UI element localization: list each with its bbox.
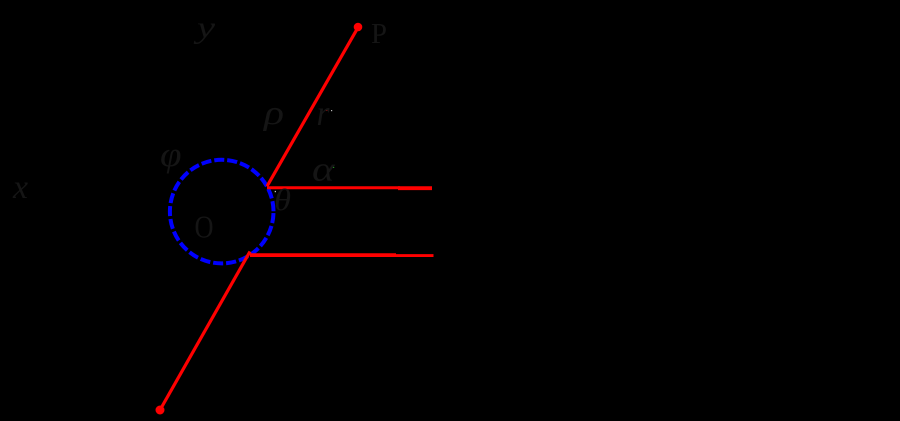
point P dot bbox=[354, 23, 363, 32]
svg-text:α: α bbox=[312, 150, 335, 189]
svg-text:φ: φ bbox=[160, 135, 182, 174]
svg-text:θ: θ bbox=[274, 182, 291, 217]
lower horizontal red line left part (thicker) bbox=[250, 253, 396, 257]
lower diagonal red line to bottom point bbox=[160, 252, 250, 411]
svg-text:y: y bbox=[193, 10, 215, 45]
bottom point dot bbox=[156, 406, 165, 415]
circle O (dashed blue) bbox=[170, 160, 274, 264]
upper horizontal red line right part (thicker) bbox=[398, 186, 432, 190]
text AA speckles bbox=[275, 109, 335, 192]
svg-text:O: O bbox=[195, 209, 214, 245]
svg-text:ρ: ρ bbox=[263, 95, 284, 132]
upper horizontal red line bbox=[267, 186, 400, 189]
svg-text:P: P bbox=[371, 19, 387, 50]
wire segment P to A (red radius line) bbox=[267, 27, 358, 186]
lower horizontal red line right part bbox=[395, 254, 434, 257]
svg-text:r: r bbox=[317, 93, 331, 133]
svg-text:x: x bbox=[12, 169, 28, 206]
